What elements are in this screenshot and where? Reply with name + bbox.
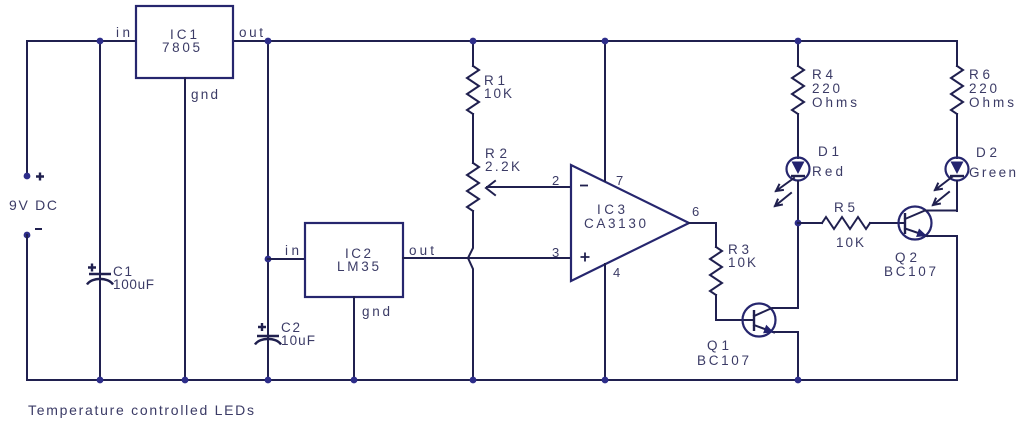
wire Q2 emitter to ground rail: [956, 236, 958, 380]
capacitor C2 polarity +: [258, 323, 266, 331]
node junction top rail at R1: [470, 38, 477, 45]
transistor Q1 emitter arrow: [763, 325, 774, 333]
svg-text:2.2K: 2.2K: [485, 159, 520, 174]
node junction bottom rail at R2: [470, 377, 477, 384]
svg-text:220: 220: [812, 81, 840, 96]
capacitor C1 curved plate: [87, 279, 113, 285]
wire IC2 gnd stub: [353, 297, 355, 380]
wire C1 branch vertical: [99, 41, 101, 380]
wire IC2 in: [268, 258, 305, 260]
transistor Q2 base bar: [904, 213, 906, 234]
resistor R3: [710, 247, 722, 295]
svg-text:10uF: 10uF: [281, 333, 315, 348]
transistor Q2 collector: [905, 211, 957, 220]
wire battery positive drop: [26, 41, 28, 176]
resistor R5: [822, 217, 870, 229]
svg-text:Q1: Q1: [707, 338, 729, 353]
LED D2 triangle: [951, 162, 964, 175]
svg-text:6: 6: [692, 204, 699, 219]
node junction top rail at IC1 out: [265, 38, 272, 45]
node junction R5 tap: [795, 220, 802, 227]
wire 5V branch vertical to LM35 and C2: [267, 41, 269, 380]
node junction bottom rail at pin 4: [602, 377, 609, 384]
svg-text:10K: 10K: [484, 86, 512, 101]
LED D2 circle: [946, 158, 969, 181]
svg-text:in: in: [116, 25, 130, 40]
svg-text:3: 3: [552, 245, 559, 260]
LED D1 emission arrow 2: [775, 193, 791, 206]
LED D2 emission arrow 2: [933, 192, 949, 205]
svg-text:R4: R4: [812, 67, 833, 82]
svg-text:in: in: [285, 243, 299, 258]
node junction bottom rail at C2: [265, 377, 272, 384]
wire R4 branch top: [797, 41, 799, 66]
node junction bottom rail at IC2 gnd: [351, 377, 358, 384]
wire R4 to D1: [797, 114, 799, 158]
wire top rail left segment: [27, 40, 136, 42]
svg-text:gnd: gnd: [191, 87, 218, 102]
wire R5 to Q2 base: [870, 222, 905, 224]
svg-text:220: 220: [969, 81, 997, 96]
wire D1 to Q1 collector: [797, 181, 799, 308]
op-amp non-inverting + sign: [581, 253, 590, 262]
node junction top rail at pin 7: [602, 38, 609, 45]
svg-text:10K: 10K: [836, 235, 864, 250]
svg-text:9V DC: 9V DC: [9, 197, 57, 213]
capacitor C1 polarity +: [88, 264, 96, 272]
wire between R1 and R2: [472, 114, 474, 163]
wire R6 branch top: [956, 41, 958, 66]
svg-text:Ohms: Ohms: [812, 95, 857, 110]
wire R3 to Q1 base: [716, 295, 754, 320]
wire R2 bottom with crossover jog: [468, 211, 473, 380]
wire top rail right segment: [233, 40, 957, 42]
svg-text:R5: R5: [834, 200, 855, 215]
svg-text:BC107: BC107: [697, 353, 749, 368]
svg-text:out: out: [409, 243, 434, 258]
svg-text:Green: Green: [969, 165, 1016, 180]
capacitor C2 curved plate: [255, 339, 281, 345]
svg-text:Temperature controlled LEDs: Temperature controlled LEDs: [28, 402, 254, 418]
op-amp inverting - sign: [580, 185, 588, 187]
svg-text:Ohms: Ohms: [969, 95, 1014, 110]
node junction bottom rail at C1: [97, 377, 104, 384]
svg-text:Red: Red: [812, 164, 843, 179]
wire R1 R2 branch top: [472, 41, 474, 66]
node junction top rail at C1: [97, 38, 104, 45]
wire op-amp pin 7 to supply: [604, 41, 606, 181]
wire op-amp output pin 6 to R3: [689, 223, 716, 247]
transistor Q1 base bar: [753, 310, 755, 331]
wire R6 to D2: [956, 114, 958, 158]
node battery + terminal: [24, 173, 31, 180]
wire op-amp pin 4 to ground: [604, 264, 606, 380]
transistor Q2 emitter arrow: [916, 229, 927, 238]
op-amp U1 IC3 CA3130 triangle: [571, 165, 689, 281]
svg-text:D1: D1: [818, 144, 839, 159]
capacitor C1 top plate: [89, 273, 111, 275]
transistor Q1 emitter: [754, 325, 798, 333]
LED D1 cathode bar: [791, 175, 805, 177]
node battery - terminal: [24, 232, 31, 239]
resistor R2 potentiometer: [467, 163, 479, 211]
LED D2 emission arrow 1: [935, 177, 952, 190]
LED D2 cathode bar: [950, 175, 964, 177]
resistor R4: [792, 66, 804, 114]
battery + sign: [36, 173, 44, 181]
svg-text:10K: 10K: [728, 255, 756, 270]
wiper arrow head: [486, 181, 495, 195]
LED D1 emission arrow 1: [776, 178, 794, 191]
svg-text:out: out: [239, 25, 263, 40]
transistor Q1 circle: [743, 304, 776, 337]
LED D1 triangle: [792, 162, 805, 175]
battery - sign: [35, 228, 42, 230]
svg-text:100uF: 100uF: [113, 277, 154, 292]
transistor Q2 circle: [899, 207, 932, 240]
wire Q1 emitter to ground rail: [797, 332, 799, 380]
wire R2 wiper to op-amp pin 2: [487, 186, 571, 188]
resistor R1: [467, 66, 479, 114]
wire R5 left lead: [798, 222, 822, 224]
svg-text:4: 4: [613, 265, 620, 280]
node junction top rail at R4: [795, 38, 802, 45]
svg-text:Q2: Q2: [895, 250, 917, 265]
transistor Q2 emitter: [905, 229, 957, 237]
node junction IC2 in wire: [265, 256, 272, 263]
svg-text:2: 2: [552, 173, 559, 188]
svg-text:BC107: BC107: [884, 264, 936, 279]
wire IC2 out to op-amp pin 3: [403, 257, 571, 259]
capacitor C2 top plate: [257, 335, 279, 337]
svg-text:7: 7: [616, 173, 623, 188]
IC1 7805 voltage regulator box: [136, 6, 233, 78]
svg-text:R6: R6: [969, 67, 990, 82]
wire battery negative drop: [26, 235, 28, 380]
svg-text:gnd: gnd: [362, 304, 390, 319]
svg-text:LM35: LM35: [337, 259, 379, 274]
wire D2 to Q2 collector: [956, 181, 958, 211]
resistor R6: [951, 66, 963, 114]
node junction bottom rail at Q1: [795, 377, 802, 384]
IC2 LM35 sensor box: [305, 223, 403, 297]
svg-text:D2: D2: [976, 145, 997, 160]
wire IC1 gnd stub: [184, 78, 186, 380]
transistor Q1 collector: [754, 308, 798, 316]
LED D1 circle: [787, 158, 810, 181]
node junction bottom rail at IC1 gnd: [182, 377, 189, 384]
wire bottom ground rail: [27, 379, 957, 381]
